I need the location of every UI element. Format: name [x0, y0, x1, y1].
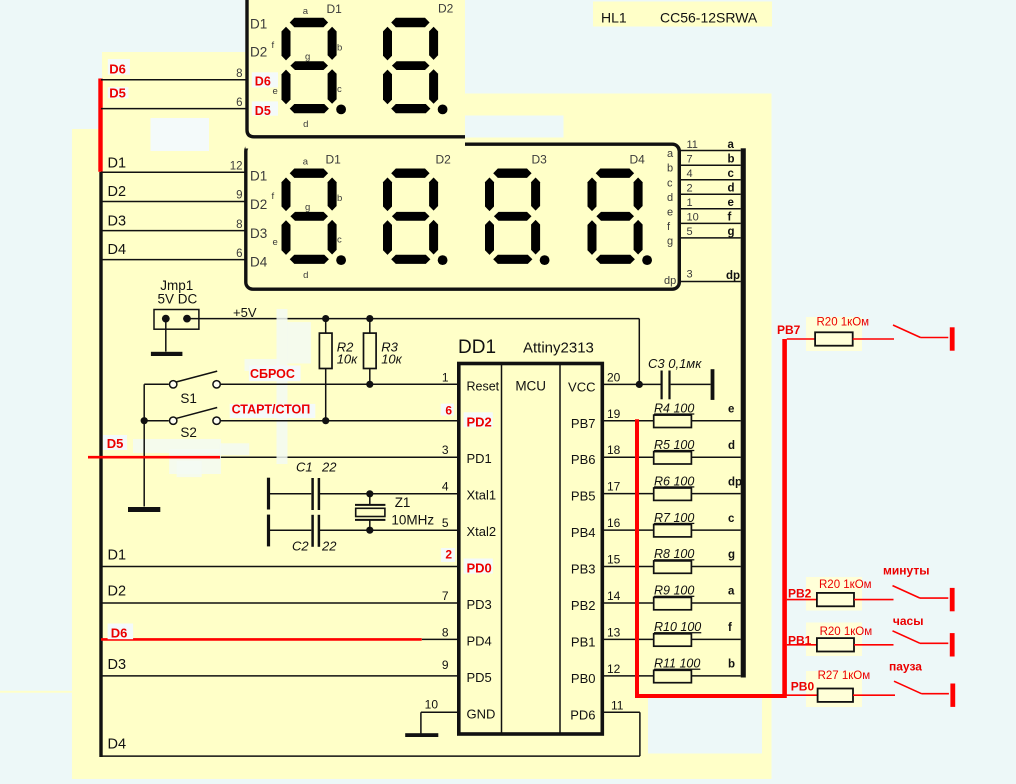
- svg-text:PB4: PB4: [571, 525, 596, 540]
- svg-text:D5: D5: [109, 85, 126, 100]
- svg-text:PB1: PB1: [571, 634, 596, 649]
- svg-text:d: d: [303, 270, 308, 281]
- svg-text:PD0: PD0: [467, 561, 492, 576]
- svg-text:a: a: [728, 586, 735, 598]
- svg-text:f: f: [272, 191, 275, 202]
- svg-text:PB2: PB2: [788, 587, 812, 601]
- svg-text:c: c: [337, 235, 342, 246]
- svg-text:Attiny2313: Attiny2313: [523, 340, 594, 357]
- svg-text:D3: D3: [108, 657, 127, 673]
- svg-text:12: 12: [607, 662, 621, 676]
- svg-text:10: 10: [687, 212, 699, 224]
- svg-text:b: b: [337, 193, 342, 204]
- svg-text:D1: D1: [108, 156, 127, 172]
- svg-text:dp: dp: [726, 270, 740, 282]
- svg-text:D6: D6: [111, 625, 128, 640]
- svg-text:PB5: PB5: [571, 489, 596, 504]
- svg-text:S2: S2: [180, 425, 197, 440]
- svg-text:7: 7: [442, 589, 449, 603]
- svg-text:Reset: Reset: [467, 379, 500, 393]
- svg-text:2: 2: [687, 183, 693, 195]
- svg-text:D3: D3: [532, 153, 548, 167]
- svg-text:D2: D2: [250, 197, 267, 212]
- svg-text:VCC: VCC: [568, 379, 595, 394]
- svg-text:минуты: минуты: [883, 564, 929, 578]
- svg-text:5: 5: [687, 226, 693, 238]
- svg-text:22: 22: [321, 539, 337, 554]
- svg-text:R4 100: R4 100: [654, 401, 694, 415]
- svg-text:f: f: [728, 212, 732, 224]
- svg-text:c: c: [728, 168, 735, 180]
- svg-text:D2: D2: [108, 184, 127, 200]
- svg-text:PD6: PD6: [570, 707, 595, 722]
- svg-text:PB1: PB1: [788, 633, 812, 647]
- svg-text:16: 16: [607, 516, 621, 530]
- svg-text:D4: D4: [630, 153, 646, 167]
- svg-text:d: d: [728, 440, 735, 452]
- svg-text:C1: C1: [296, 460, 313, 475]
- svg-text:6: 6: [236, 97, 242, 109]
- svg-text:C3 0,1мк: C3 0,1мк: [648, 356, 702, 371]
- svg-text:g: g: [728, 549, 735, 561]
- svg-text:9: 9: [236, 190, 242, 202]
- svg-text:Xtal2: Xtal2: [467, 524, 497, 539]
- svg-text:g: g: [667, 235, 673, 247]
- svg-text:MCU: MCU: [515, 379, 546, 394]
- svg-text:3: 3: [442, 443, 449, 457]
- svg-text:3: 3: [687, 269, 693, 281]
- svg-text:R8 100: R8 100: [654, 547, 694, 561]
- svg-text:D6: D6: [109, 62, 126, 77]
- svg-text:4: 4: [442, 480, 449, 494]
- svg-text:d: d: [667, 192, 673, 204]
- svg-text:D1: D1: [250, 169, 267, 184]
- svg-text:D4: D4: [250, 255, 268, 270]
- svg-text:PB3: PB3: [571, 562, 596, 577]
- svg-text:DD1: DD1: [458, 337, 496, 358]
- svg-text:5: 5: [442, 516, 449, 530]
- svg-text:6: 6: [445, 404, 452, 418]
- svg-text:часы: часы: [893, 614, 924, 628]
- svg-text:6: 6: [236, 248, 242, 260]
- svg-text:D5: D5: [255, 104, 271, 118]
- svg-text:17: 17: [607, 480, 621, 494]
- svg-text:PB0: PB0: [571, 671, 596, 686]
- svg-text:R6 100: R6 100: [654, 474, 694, 488]
- svg-text:a: a: [728, 139, 735, 151]
- svg-text:19: 19: [607, 407, 621, 421]
- svg-text:a: a: [667, 148, 674, 160]
- svg-text:Z1: Z1: [395, 495, 411, 510]
- svg-text:D5: D5: [107, 436, 124, 451]
- svg-text:D1: D1: [327, 2, 343, 16]
- svg-text:PD5: PD5: [467, 670, 492, 685]
- svg-text:HL1: HL1: [601, 10, 627, 26]
- svg-text:PD3: PD3: [467, 597, 492, 612]
- svg-text:d: d: [728, 183, 735, 195]
- svg-text:15: 15: [607, 553, 621, 567]
- svg-text:PD2: PD2: [467, 415, 492, 430]
- svg-text:1: 1: [442, 370, 449, 384]
- svg-text:e: e: [728, 403, 734, 415]
- svg-text:Xtal1: Xtal1: [467, 488, 497, 503]
- svg-text:a: a: [303, 157, 309, 168]
- svg-text:b: b: [667, 163, 673, 175]
- svg-text:D2: D2: [438, 2, 454, 16]
- svg-text:10: 10: [425, 698, 439, 712]
- svg-text:8: 8: [442, 625, 449, 639]
- svg-text:10к: 10к: [381, 352, 402, 367]
- svg-text:f: f: [728, 622, 732, 634]
- svg-text:9: 9: [442, 658, 449, 672]
- svg-text:D1: D1: [326, 153, 342, 167]
- svg-text:R20 1кОм: R20 1кОм: [820, 626, 873, 638]
- svg-text:g: g: [305, 51, 310, 62]
- svg-text:1: 1: [687, 197, 693, 209]
- svg-text:СТАРТ/СТОП: СТАРТ/СТОП: [232, 403, 311, 417]
- svg-text:D1: D1: [250, 17, 267, 32]
- svg-text:13: 13: [607, 625, 621, 639]
- svg-text:11: 11: [611, 699, 624, 713]
- svg-text:8: 8: [236, 68, 242, 80]
- svg-text:D1: D1: [108, 548, 127, 564]
- svg-text:4: 4: [687, 168, 693, 180]
- svg-text:R20 1кОм: R20 1кОм: [819, 579, 872, 591]
- svg-text:R27 1кОм: R27 1кОм: [818, 670, 871, 682]
- svg-text:R7 100: R7 100: [654, 511, 694, 525]
- svg-text:PB7: PB7: [571, 416, 596, 431]
- svg-text:14: 14: [607, 589, 621, 603]
- svg-text:пауза: пауза: [889, 660, 922, 674]
- svg-text:D2: D2: [108, 584, 127, 600]
- svg-text:10MHz: 10MHz: [391, 513, 434, 528]
- svg-text:22: 22: [321, 460, 337, 475]
- svg-text:R10 100: R10 100: [654, 620, 701, 634]
- svg-text:18: 18: [607, 443, 621, 457]
- svg-text:dp: dp: [728, 476, 742, 488]
- svg-text:D2: D2: [250, 45, 267, 60]
- svg-text:g: g: [305, 202, 310, 213]
- svg-text:b: b: [728, 659, 735, 671]
- svg-text:20: 20: [607, 370, 621, 384]
- svg-text:7: 7: [687, 154, 693, 166]
- svg-text:c: c: [667, 177, 673, 189]
- svg-text:R9 100: R9 100: [654, 584, 694, 598]
- svg-text:e: e: [273, 86, 278, 97]
- svg-text:D6: D6: [255, 75, 271, 89]
- svg-text:PD4: PD4: [467, 633, 492, 648]
- svg-text:PB6: PB6: [571, 452, 596, 467]
- svg-text:СБРОС: СБРОС: [250, 367, 295, 381]
- svg-text:c: c: [728, 513, 735, 525]
- svg-text:R11 100: R11 100: [654, 657, 700, 671]
- svg-text:5V DC: 5V DC: [158, 292, 198, 307]
- svg-text:f: f: [272, 40, 275, 51]
- svg-text:a: a: [303, 6, 309, 17]
- svg-text:PD1: PD1: [467, 451, 492, 466]
- svg-text:d: d: [303, 119, 308, 130]
- svg-text:e: e: [728, 197, 734, 209]
- svg-text:11: 11: [687, 139, 698, 151]
- svg-text:8: 8: [236, 219, 242, 231]
- svg-text:e: e: [667, 206, 673, 218]
- svg-text:D3: D3: [108, 213, 127, 229]
- svg-text:D4: D4: [108, 242, 127, 258]
- svg-text:C2: C2: [292, 539, 309, 554]
- svg-text:PB2: PB2: [571, 598, 596, 613]
- svg-text:10к: 10к: [337, 352, 358, 367]
- svg-text:S1: S1: [180, 391, 197, 406]
- svg-text:D3: D3: [250, 226, 267, 241]
- svg-text:PB7: PB7: [777, 323, 801, 337]
- svg-text:R5 100: R5 100: [654, 438, 694, 452]
- svg-text:2: 2: [445, 548, 452, 562]
- svg-text:GND: GND: [467, 706, 496, 721]
- svg-text:g: g: [728, 226, 735, 238]
- svg-text:12: 12: [230, 161, 243, 173]
- svg-text:b: b: [337, 42, 342, 53]
- svg-text:e: e: [273, 237, 278, 248]
- svg-text:+5V: +5V: [233, 305, 257, 320]
- svg-text:c: c: [337, 84, 342, 95]
- svg-text:D4: D4: [108, 737, 127, 753]
- svg-text:PB0: PB0: [791, 680, 815, 694]
- svg-text:dp: dp: [664, 275, 676, 287]
- svg-text:D2: D2: [436, 153, 452, 167]
- svg-text:R20 1кОм: R20 1кОм: [817, 316, 870, 328]
- svg-text:CC56-12SRWA: CC56-12SRWA: [660, 10, 758, 26]
- svg-text:b: b: [728, 154, 735, 166]
